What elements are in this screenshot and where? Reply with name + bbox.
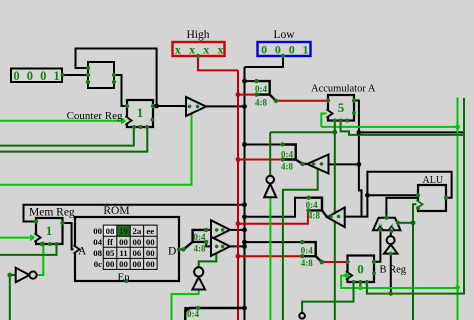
splitter S4 at ROM D	[184, 230, 207, 250]
splitter S1	[257, 81, 277, 101]
ROM row2 values	[107, 237, 155, 247]
wire counter Q to buffer	[153, 105, 186, 107]
svg-text:1: 1	[137, 105, 144, 120]
wire acc bottom pin2 to right	[341, 121, 464, 135]
splitter S1 labels	[255, 84, 267, 107]
wire counter bottom pin 2 to left edge	[0, 127, 147, 152]
wire NOT0 output to Mem Reg enable	[37, 244, 44, 275]
svg-text:4:8: 4:8	[308, 211, 320, 221]
svg-text:B Reg: B Reg	[380, 265, 407, 276]
svg-text:En: En	[118, 272, 131, 284]
svg-text:Low: Low	[273, 29, 295, 41]
svg-text:x x x x: x x x x	[175, 43, 226, 57]
wire Mem Reg clock from left edge	[0, 237, 33, 239]
ALU clock chevron	[416, 200, 422, 208]
wire black bus to BReg splitter leg1	[245, 241, 303, 243]
svg-text:4:8: 4:8	[194, 244, 206, 254]
svg-text:00: 00	[146, 237, 155, 247]
svg-text:Accumulator A: Accumulator A	[311, 84, 376, 95]
wire mux select branch	[398, 222, 413, 224]
wire black bus to splitter S1 upper leg	[245, 80, 257, 82]
ROM row1 values	[106, 226, 155, 236]
wire clock net horizontal bottom	[341, 276, 457, 288]
svg-text:11: 11	[119, 248, 127, 258]
NOT0 gate pointing right	[16, 268, 37, 282]
wire Low probe to black bus	[245, 56, 284, 67]
svg-text:2a: 2a	[133, 226, 142, 236]
Mem Reg	[34, 218, 62, 244]
output pin circle	[299, 313, 305, 319]
wire bottom splitter to black bus	[185, 308, 244, 320]
wire BReg splitter trunk to B Reg D	[322, 261, 348, 263]
wire accumulator Q east branch	[354, 101, 362, 217]
wire B Reg bottom pin3 net to right stub	[367, 98, 464, 294]
NOT3 gate pointing up	[384, 236, 398, 254]
ROM row4 values	[106, 259, 156, 269]
BReg splitter S6	[302, 242, 322, 262]
WIRES-RED	[198, 56, 348, 320]
svg-text:0: 0	[357, 262, 364, 277]
WIRES-DARK	[0, 98, 464, 320]
input pin 0001	[11, 69, 62, 84]
svg-text:0c: 0c	[94, 259, 102, 269]
buffer B2 left-pointing	[307, 155, 328, 174]
pair2 splitter labels	[306, 200, 321, 221]
wire ROM D to splitter S4	[179, 248, 184, 250]
wire black bus to pair1 splitter leg	[245, 144, 283, 146]
wire counter clock from left edge	[0, 120, 124, 122]
wire clock net right vertical stub	[457, 98, 459, 320]
buffer B1	[186, 97, 206, 116]
wire counter feedback loop to adder input A	[76, 49, 157, 107]
probe Low	[258, 42, 311, 57]
wire Mem Reg Q to ROM A	[63, 223, 76, 249]
svg-text:00: 00	[146, 259, 155, 269]
svg-text:05: 05	[106, 248, 115, 258]
probe High	[173, 42, 227, 57]
wire acc Q branch right	[359, 131, 464, 133]
wire adder sum output to counter D	[114, 75, 127, 106]
wire buffer output to black bus	[206, 105, 245, 107]
svg-text:Counter Reg: Counter Reg	[67, 110, 123, 122]
wire black bus vertical	[244, 67, 246, 320]
wire NOT1 input from bottom edge	[172, 290, 199, 320]
ROM addresses	[93, 226, 102, 269]
ROM row3 values	[106, 248, 156, 258]
wire BReg Q to mux input 0	[374, 230, 380, 262]
wire enable net vertical to B3 top	[334, 132, 336, 213]
svg-text:0 0 0 1: 0 0 0 1	[261, 43, 311, 57]
wire counter bottom pin 1 to left edge	[0, 127, 134, 146]
wire buffer B1 enable down-left	[0, 114, 192, 185]
wire NOT0 input	[10, 275, 16, 320]
wire clock net: acc clock vertical	[321, 114, 328, 127]
wire buffer B4 output to bus	[230, 229, 245, 231]
wire NOT2 input from bottom edge	[269, 197, 271, 320]
wire buffer B3 input net to ALU wrap	[345, 172, 452, 217]
buffer B4	[211, 220, 230, 239]
svg-text:0:4: 0:4	[187, 309, 199, 319]
svg-text:00: 00	[146, 248, 155, 258]
svg-text:00: 00	[106, 259, 115, 269]
wire red bus to BReg splitter leg2	[238, 255, 302, 257]
adder U1	[88, 62, 114, 88]
svg-text:08: 08	[93, 248, 102, 258]
wire ALU clock and mux select net	[413, 204, 418, 320]
svg-text:Mem Reg: Mem Reg	[29, 207, 75, 219]
svg-text:5: 5	[338, 100, 345, 115]
wire B Reg bottom pin1 to output pin	[302, 282, 353, 313]
svg-text:00: 00	[119, 259, 128, 269]
pair1 splitter labels	[281, 150, 293, 172]
accumulator reg	[326, 95, 354, 121]
wire black bus to Mem Reg D	[24, 205, 245, 222]
svg-text:19: 19	[119, 226, 128, 236]
wire red bus vertical	[237, 70, 239, 320]
svg-text:04: 04	[93, 237, 102, 247]
wire red bus to pair1 splitter lower leg	[238, 159, 283, 161]
svg-text:00: 00	[93, 226, 102, 236]
wire splitter S1 trunk to Accumulator D	[276, 100, 328, 102]
wire buffer B2 enable down	[283, 169, 318, 320]
svg-text:00: 00	[133, 237, 142, 247]
mux M1	[373, 218, 401, 231]
ROM contents grid	[103, 225, 157, 269]
svg-text:1: 1	[391, 223, 395, 231]
NOT1 gate pointing up	[192, 267, 205, 289]
svg-text:0:4: 0:4	[281, 150, 293, 160]
mux input labels	[379, 223, 395, 231]
pair2 splitter S3	[309, 198, 328, 218]
wire NOT3 output to mux input 1	[390, 230, 392, 236]
wire red bus to pair2 splitter lower branch	[238, 210, 308, 223]
pair1 splitter S2	[283, 145, 308, 164]
junction dots green pins	[7, 54, 448, 310]
wire High probe to red bus	[198, 56, 238, 70]
wire mux output to ALU	[386, 198, 418, 218]
wire B Reg bottom pin2 stub	[359, 282, 361, 288]
counter reg	[125, 100, 153, 127]
wire splitter S4 leg1 to buffer B4	[206, 229, 211, 231]
svg-text:0:4: 0:4	[306, 200, 318, 210]
svg-text:08: 08	[106, 226, 115, 236]
svg-text:1: 1	[46, 223, 53, 238]
NOT2 gate pointing up	[264, 176, 276, 197]
svg-text:4:8: 4:8	[255, 97, 267, 107]
wire splitter S4 leg2 to buffer B5	[206, 242, 211, 247]
wire 0001 pin to adder input B	[62, 74, 88, 76]
svg-text:0:4: 0:4	[301, 246, 313, 256]
wire Mem Reg bottom pin to left edge	[0, 244, 57, 255]
svg-text:4:8: 4:8	[281, 161, 293, 171]
svg-text:ee: ee	[146, 226, 154, 236]
svg-text:0:4: 0:4	[194, 232, 206, 242]
svg-text:0: 0	[379, 223, 383, 231]
wire clock net horizontal mid	[321, 126, 457, 128]
buffer B3 left-pointing	[327, 208, 345, 228]
wire NOT3 input	[390, 254, 392, 294]
wire NOT2 output net horizontal	[270, 131, 335, 133]
svg-text:ALU: ALU	[423, 175, 444, 186]
wire enable net vertical from B3 bottom	[334, 222, 336, 320]
bottom splitter S5	[185, 308, 244, 320]
wire NOT1 output to buffer B5 enable	[199, 253, 217, 267]
svg-text:A: A	[78, 246, 87, 258]
WIRES-BLACK	[24, 49, 465, 320]
wire acc Q branch to buffer B2 input	[329, 163, 359, 165]
svg-text:High: High	[187, 29, 210, 41]
svg-text:00: 00	[133, 259, 142, 269]
svg-text:06: 06	[133, 248, 142, 258]
wire acc bottom pin1 stub	[334, 121, 336, 133]
svg-text:ROM: ROM	[103, 205, 129, 217]
wire pair2 splitter upper branch to black bus	[245, 198, 309, 217]
junction dots on nets	[154, 79, 460, 311]
svg-text:4:8: 4:8	[301, 258, 313, 268]
WIRES-BRIGHT	[0, 98, 458, 320]
svg-text:0 0 0 1: 0 0 0 1	[13, 69, 61, 83]
B Reg	[346, 256, 374, 283]
buffer B5	[211, 237, 230, 256]
svg-text:D: D	[168, 246, 176, 258]
wire buffer B5 output to bus	[230, 245, 245, 247]
S4 splitter labels	[194, 232, 206, 254]
ALU box	[418, 185, 446, 211]
wire NOT2 output up	[269, 132, 271, 176]
ROM box	[73, 217, 179, 281]
svg-text:0:4: 0:4	[255, 84, 267, 94]
svg-text:00: 00	[119, 237, 128, 247]
wire branch to ALU A input	[367, 194, 418, 196]
S6 splitter labels	[301, 246, 313, 268]
wire red bus to splitter S1 lower leg	[238, 94, 257, 96]
